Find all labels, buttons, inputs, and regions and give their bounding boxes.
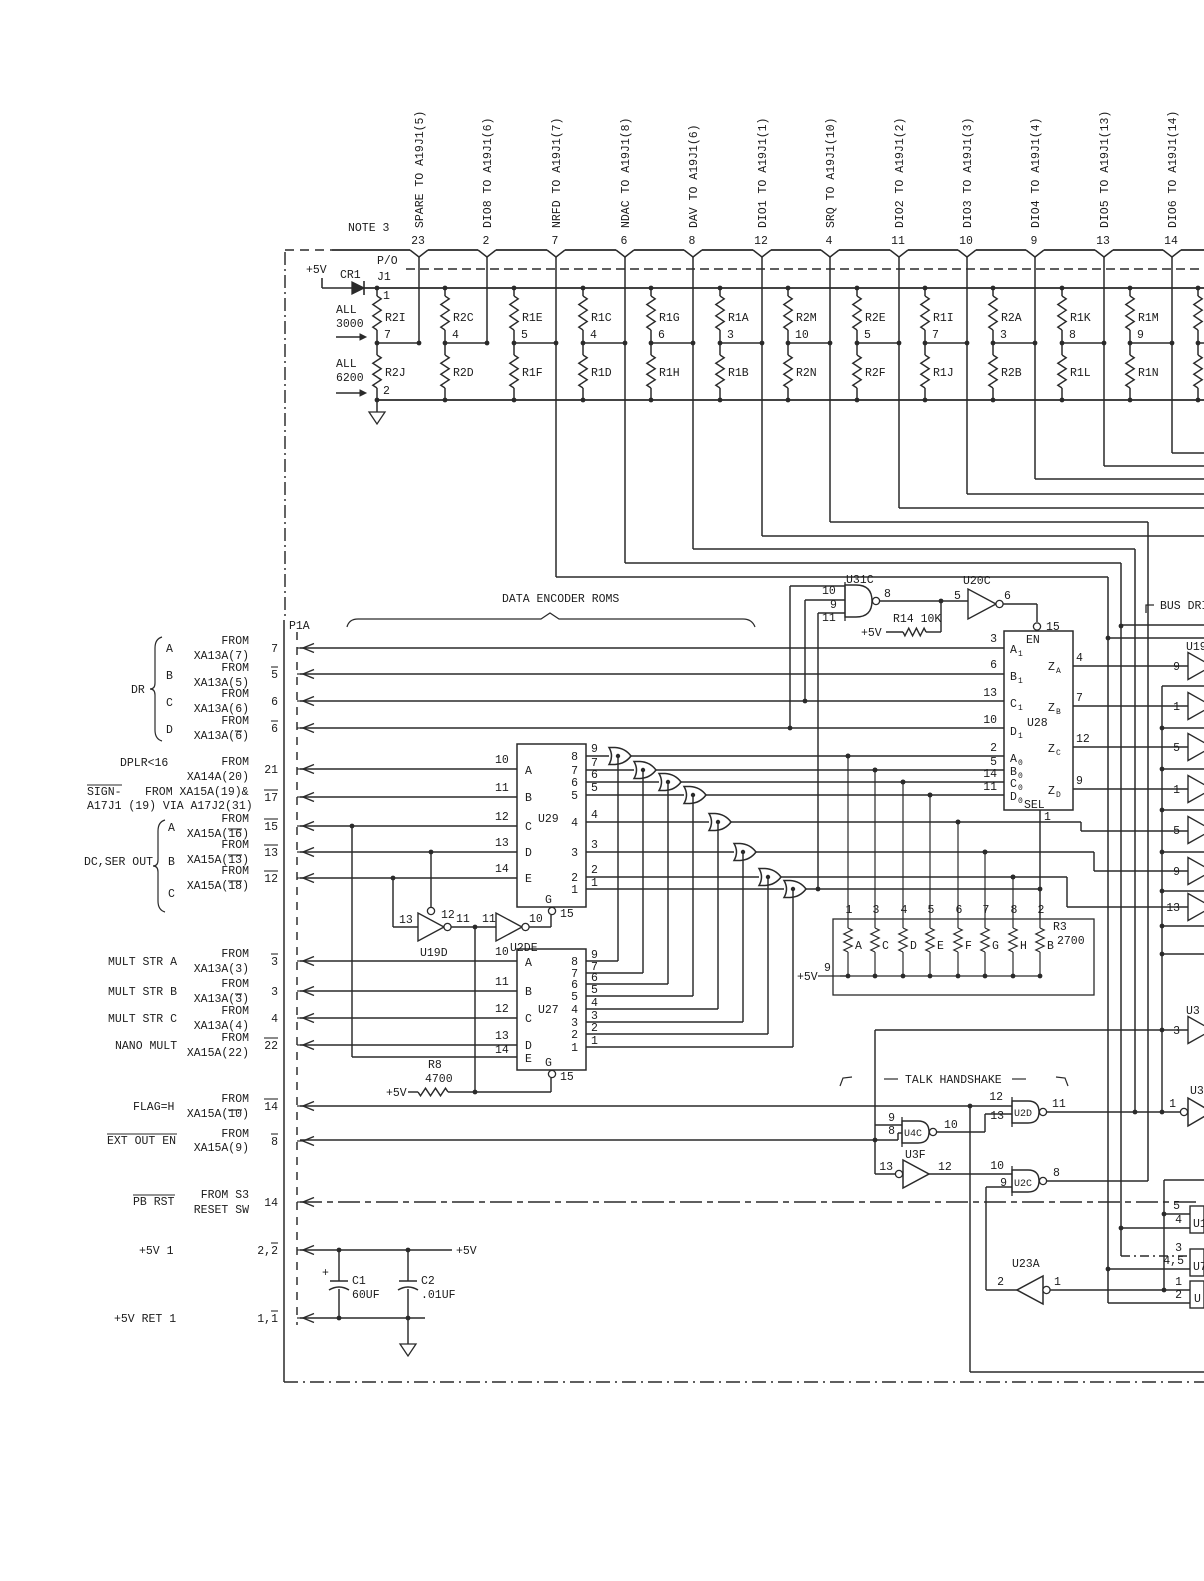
- svg-text:G: G: [545, 1057, 552, 1070]
- wire or3 output to U28 C0: [681, 780, 1004, 785]
- svg-text:SIGN-: SIGN-: [87, 786, 122, 799]
- wire or5 output to bus driver 5: [731, 820, 1188, 831]
- svg-text:C: C: [525, 1013, 532, 1026]
- or-gate 3: [659, 774, 681, 791]
- wire U29 out 1 row: [586, 877, 784, 890]
- svg-text:11: 11: [482, 913, 496, 926]
- svg-text:1: 1: [571, 1042, 578, 1055]
- svg-text:DPLR<16: DPLR<16: [120, 757, 168, 770]
- svg-text:5: 5: [571, 790, 578, 803]
- P1A pin 21 y769: [264, 764, 314, 777]
- svg-text:R2J: R2J: [385, 367, 406, 380]
- svg-text:9: 9: [888, 1112, 895, 1125]
- svg-text:5: 5: [928, 904, 935, 917]
- svg-text:15: 15: [264, 821, 278, 834]
- J1 pin 10 number: [959, 235, 973, 248]
- svg-text:5: 5: [591, 984, 598, 997]
- P1A pin 8 y1141: [271, 1134, 314, 1149]
- resistor R2C: [441, 286, 474, 343]
- svg-text:3: 3: [571, 847, 578, 860]
- svg-text:ALL: ALL: [336, 358, 357, 371]
- wire J1 column 9 vertical: [966, 257, 968, 494]
- svg-text:4: 4: [591, 997, 598, 1010]
- inverter U20C: [954, 575, 1011, 619]
- svg-text:1: 1: [1018, 650, 1023, 659]
- resistor R1L: [1058, 343, 1091, 402]
- wire J1 column 3 vertical: [555, 257, 557, 577]
- wire branch to right edge y638: [1108, 637, 1204, 639]
- U28 EN bubble pin 15: [1033, 621, 1060, 634]
- svg-text:11: 11: [983, 781, 997, 794]
- svg-text:Z: Z: [1048, 702, 1055, 715]
- svg-text:7: 7: [932, 329, 939, 342]
- resistor R1E: [510, 286, 543, 343]
- svg-text:FROM: FROM: [221, 1032, 249, 1045]
- svg-text:U2C: U2C: [1014, 1179, 1032, 1190]
- svg-text:14: 14: [1164, 235, 1178, 248]
- svg-text:B: B: [525, 986, 532, 999]
- svg-text:6: 6: [1004, 590, 1011, 603]
- svg-text:Z: Z: [1048, 743, 1055, 756]
- signal label NDAC column 4: [620, 118, 633, 228]
- svg-text:11: 11: [495, 782, 509, 795]
- IC box U8 right edge: [1190, 1281, 1204, 1308]
- svg-text:FLAG=H: FLAG=H: [133, 1101, 174, 1114]
- wire R3 pin 5 riser: [928, 793, 933, 919]
- svg-text:10: 10: [959, 235, 973, 248]
- svg-text:C: C: [168, 888, 175, 901]
- node mid pin 10 column 7: [786, 329, 833, 345]
- signal label DAV column 5: [688, 124, 701, 228]
- svg-text:EXT OUT EN: EXT OUT EN: [107, 1135, 176, 1148]
- signal label DIO4 column 10: [1030, 118, 1043, 228]
- svg-text:+5V: +5V: [861, 627, 882, 640]
- svg-text:FROM: FROM: [221, 1093, 249, 1106]
- svg-text:3: 3: [271, 956, 278, 969]
- svg-text:MULT STR A: MULT STR A: [108, 956, 177, 969]
- resistor R1A: [716, 286, 749, 343]
- ROM U29: [517, 744, 586, 907]
- svg-text:5: 5: [954, 590, 961, 603]
- svg-text:12: 12: [754, 235, 768, 248]
- wire U2D out to inverter U3: [1046, 1098, 1184, 1114]
- svg-text:6200: 6200: [336, 372, 364, 385]
- signal label DIO8 column 2: [482, 118, 495, 228]
- or-gate 4: [684, 787, 706, 804]
- wire branch to right edge y625: [1121, 624, 1204, 626]
- wire U29 out 5 row: [586, 782, 684, 795]
- svg-text:3: 3: [591, 839, 598, 852]
- svg-text:DATA ENCODER ROMS: DATA ENCODER ROMS: [502, 593, 619, 606]
- U27 out pin label row 996: [591, 984, 598, 997]
- svg-text:1: 1: [1018, 677, 1023, 686]
- wire U29 out 6 row: [586, 769, 659, 782]
- svg-text:2: 2: [1175, 1289, 1182, 1302]
- wire right lower feed vertical: [1162, 1180, 1204, 1292]
- signal label DIO1 column 6: [757, 118, 770, 228]
- resistor R2A: [989, 286, 1022, 343]
- signal label DIO3 column 9: [962, 118, 975, 228]
- data selector U28: [1004, 631, 1073, 812]
- svg-text:FROM: FROM: [221, 635, 249, 648]
- resistor R1C: [579, 286, 612, 343]
- svg-text:12: 12: [938, 1161, 952, 1174]
- svg-text:D: D: [1010, 726, 1017, 739]
- svg-text:7: 7: [384, 329, 391, 342]
- svg-text:C: C: [1010, 698, 1017, 711]
- svg-text:E: E: [525, 1053, 532, 1066]
- wire or8 output row to R3 SEL: [806, 887, 1042, 892]
- J1 pin 7 number: [552, 235, 559, 248]
- svg-text:6: 6: [591, 769, 598, 782]
- node mid pin 5 column 3: [512, 329, 559, 345]
- wire P1A 12 to U29 E: [300, 863, 517, 880]
- svg-text:D: D: [1010, 791, 1017, 804]
- or-gate 2: [634, 762, 656, 779]
- wire U29 out 2 row: [586, 864, 759, 877]
- svg-text:13: 13: [879, 1161, 893, 1174]
- svg-text:C1: C1: [352, 1275, 366, 1288]
- wire R3 pin 6 riser: [956, 820, 961, 919]
- svg-text:.01UF: .01UF: [421, 1289, 456, 1302]
- label FROM XA15A(16): [187, 813, 249, 841]
- U29 G enable bubble pin 15: [548, 907, 574, 921]
- svg-text:C: C: [1010, 778, 1017, 791]
- svg-text:6: 6: [271, 696, 278, 709]
- svg-text:+5V: +5V: [456, 1245, 477, 1258]
- svg-text:U4C: U4C: [904, 1129, 922, 1140]
- wire J1 column 8 vertical: [898, 257, 900, 508]
- inverter U2DE: [496, 913, 543, 955]
- svg-text:EN: EN: [1026, 634, 1040, 647]
- svg-text:9: 9: [830, 599, 837, 612]
- wire FLAG riser down and bottom run: [970, 1106, 1204, 1372]
- svg-text:4: 4: [826, 235, 833, 248]
- svg-text:U7: U7: [1193, 1261, 1204, 1274]
- svg-text:U3: U3: [1190, 1085, 1204, 1098]
- svg-text:XA14A(20): XA14A(20): [187, 771, 249, 784]
- label DPLR<16 FROM XA14A(20): [120, 756, 249, 784]
- P1A pin 12 y878: [264, 871, 314, 886]
- svg-text:4: 4: [901, 904, 908, 917]
- svg-text:3: 3: [727, 329, 734, 342]
- svg-text:U28: U28: [1027, 717, 1048, 730]
- svg-text:R1I: R1I: [933, 312, 954, 325]
- svg-text:13: 13: [264, 847, 278, 860]
- svg-text:6: 6: [658, 329, 665, 342]
- svg-text:11: 11: [891, 235, 905, 248]
- svg-text:0: 0: [1018, 759, 1023, 768]
- svg-text:R14 10K: R14 10K: [893, 613, 941, 626]
- inverter U19D: [393, 852, 455, 960]
- P1A pin 3 y961: [271, 954, 314, 969]
- J1 pin 6 number: [621, 235, 628, 248]
- wire P1A 6 to U28 C1: [300, 699, 1004, 704]
- P1A pin 14 y1202: [264, 1197, 314, 1210]
- svg-text:J1: J1: [377, 271, 391, 284]
- U27 out pin label row 973: [591, 961, 598, 974]
- resistor R2B: [989, 343, 1022, 402]
- wire U27 out 5 to or-gate 4: [586, 793, 695, 996]
- svg-text:A: A: [1010, 753, 1017, 766]
- svg-text:23: 23: [411, 235, 425, 248]
- svg-text:NRFD TO A19J1(7): NRFD TO A19J1(7): [551, 118, 564, 228]
- svg-text:R1J: R1J: [933, 367, 954, 380]
- svg-text:A: A: [1010, 644, 1017, 657]
- bus J1 pin 1 row: [364, 288, 1204, 303]
- wire U29 out 9 row: [586, 743, 609, 756]
- svg-text:CR1: CR1: [340, 269, 361, 282]
- P1A pin 22 y1045: [264, 1038, 314, 1053]
- wire P1A 3 to U27 B: [300, 976, 517, 991]
- svg-text:D: D: [910, 940, 917, 953]
- P1A pin 5 y674: [271, 667, 314, 682]
- diode CR1: [340, 269, 364, 295]
- svg-text:21: 21: [264, 764, 278, 777]
- wire riser DC SER OUT A to U27 E: [352, 826, 517, 1057]
- svg-text:13: 13: [983, 687, 997, 700]
- resistor R8 4700 pullup: [386, 1059, 551, 1100]
- svg-text:FROM XA15A(19)&: FROM XA15A(19)&: [145, 786, 249, 799]
- svg-text:FROM: FROM: [221, 662, 249, 675]
- DATA ENCODER ROMS brace: [347, 613, 755, 627]
- inverter U23A facing left: [997, 1258, 1061, 1304]
- svg-text:6: 6: [990, 659, 997, 672]
- svg-text:MULT STR C: MULT STR C: [108, 1013, 177, 1026]
- svg-text:R2E: R2E: [865, 312, 886, 325]
- svg-text:MULT STR B: MULT STR B: [108, 986, 177, 999]
- svg-text:9: 9: [1000, 1177, 1007, 1190]
- wire U31C out 8 to U20C: [880, 588, 968, 603]
- svg-text:10: 10: [495, 946, 509, 959]
- svg-text:9: 9: [1137, 329, 1144, 342]
- P1A pin 2,2 y1250: [257, 1243, 314, 1258]
- svg-text:DIO8 TO A19J1(6): DIO8 TO A19J1(6): [482, 118, 495, 228]
- svg-text:RESET SW: RESET SW: [194, 1204, 249, 1217]
- wire R8 node riser to U19D-U2DE net: [474, 927, 476, 1092]
- svg-text:R3: R3: [1053, 921, 1067, 934]
- svg-text:G: G: [992, 940, 999, 953]
- svg-text:A: A: [166, 643, 173, 656]
- wire U28 SEL to R3: [1040, 810, 1051, 919]
- svg-text:15: 15: [1046, 621, 1060, 634]
- svg-text:1: 1: [1169, 1098, 1176, 1111]
- svg-text:12: 12: [495, 1003, 509, 1016]
- svg-text:6: 6: [621, 235, 628, 248]
- wire U28 ZA to bus driver 1: [1073, 652, 1188, 666]
- svg-text:13: 13: [1096, 235, 1110, 248]
- wire J1 column 5 vertical: [692, 257, 694, 549]
- svg-text:1: 1: [383, 290, 390, 303]
- node mid pin 5 column 8: [855, 329, 902, 345]
- wire J1 column 2 vertical: [486, 257, 488, 343]
- svg-text:FROM: FROM: [221, 948, 249, 961]
- svg-text:D: D: [525, 847, 532, 860]
- wire or2 output to U28 B0: [656, 768, 1004, 773]
- svg-text:U2D: U2D: [1014, 1109, 1032, 1120]
- svg-text:13: 13: [399, 914, 413, 927]
- wire U19D out to U2DE in: [451, 913, 496, 929]
- wire J1 column 4 vertical: [624, 257, 626, 563]
- svg-text:10: 10: [529, 913, 543, 926]
- svg-text:6: 6: [956, 904, 963, 917]
- svg-text:DR: DR: [131, 684, 145, 697]
- wire NRFD column 3 down right bus: [556, 577, 1110, 1303]
- svg-text:2: 2: [483, 235, 490, 248]
- svg-text:1: 1: [571, 884, 578, 897]
- svg-text:10: 10: [944, 1119, 958, 1132]
- wire DIO2 column 8 to right edge: [899, 507, 1204, 509]
- resistor network R3 2700: [797, 904, 1094, 995]
- label FLAG=H FROM XA15A(10): [133, 1093, 249, 1121]
- svg-text:12: 12: [495, 811, 509, 824]
- wire to buffer 3 from U3F net: [875, 1030, 1188, 1174]
- ground below C2: [400, 1318, 416, 1356]
- svg-text:1: 1: [1018, 704, 1023, 713]
- svg-text:R8: R8: [428, 1059, 442, 1072]
- TALK HANDSHAKE header: [840, 1074, 1068, 1087]
- svg-text:R2F: R2F: [865, 367, 886, 380]
- svg-text:1: 1: [1018, 732, 1023, 741]
- svg-text:2,2: 2,2: [257, 1245, 278, 1258]
- U2C input pin labels: [990, 1160, 1007, 1190]
- svg-text:U27: U27: [538, 1004, 559, 1017]
- svg-text:XA13A(6): XA13A(6): [194, 730, 249, 743]
- svg-text:7: 7: [983, 904, 990, 917]
- resistor R2E: [853, 286, 886, 343]
- wire P1A 17 to U29 B: [300, 782, 517, 797]
- svg-text:A: A: [525, 765, 532, 778]
- svg-text:8: 8: [1053, 1167, 1060, 1180]
- signal label NRFD column 3: [551, 118, 564, 228]
- sheet border left dash-dot upper: [284, 252, 286, 620]
- nand U31C: [845, 585, 880, 617]
- svg-text:R1F: R1F: [522, 367, 543, 380]
- svg-text:D: D: [166, 724, 173, 737]
- svg-text:R2B: R2B: [1001, 367, 1022, 380]
- svg-text:R2N: R2N: [796, 367, 817, 380]
- svg-text:FROM S3: FROM S3: [201, 1189, 249, 1202]
- svg-text:SPARE TO A19J1(5): SPARE TO A19J1(5): [414, 111, 427, 228]
- svg-text:U19D: U19D: [420, 947, 448, 960]
- label MULT STR C FROM XA13A(4): [108, 1005, 249, 1033]
- svg-text:4: 4: [452, 329, 459, 342]
- label +5V RET 1: [114, 1313, 176, 1326]
- U27 out pin label row 1034: [591, 1022, 598, 1035]
- svg-text:60UF: 60UF: [352, 1289, 380, 1302]
- resistor R1J: [921, 343, 954, 402]
- wire P1A 5 to U28 B1: [300, 673, 1004, 675]
- svg-text:4: 4: [591, 809, 598, 822]
- resistor R1I: [921, 286, 954, 343]
- J1 pin 9 number: [1031, 235, 1038, 248]
- signal label DIO6 column 12: [1167, 111, 1180, 228]
- svg-text:DIO1 TO A19J1(1): DIO1 TO A19J1(1): [757, 118, 770, 228]
- svg-text:2: 2: [997, 1276, 1004, 1289]
- P1A pin 17 y797: [264, 790, 314, 805]
- svg-text:FROM: FROM: [221, 688, 249, 701]
- svg-text:D: D: [1056, 791, 1061, 800]
- wire P1A 15 to U29 C: [300, 811, 517, 828]
- resistor R1K: [1058, 286, 1091, 343]
- svg-text:11: 11: [456, 913, 470, 926]
- node mid pin 8 column 11: [1060, 329, 1107, 345]
- svg-text:2: 2: [591, 864, 598, 877]
- label +5V 1: [139, 1245, 174, 1258]
- svg-text:SRQ TO A19J1(10): SRQ TO A19J1(10): [825, 118, 838, 228]
- svg-text:1: 1: [846, 904, 853, 917]
- svg-text:2: 2: [990, 742, 997, 755]
- resistor R2D: [441, 343, 474, 402]
- svg-text:C2: C2: [421, 1275, 435, 1288]
- connector P1A dashed pin line: [296, 632, 298, 1325]
- wire box U14 pin 5: [1164, 1200, 1190, 1214]
- svg-text:0: 0: [1018, 772, 1023, 781]
- svg-text:R2M: R2M: [796, 312, 817, 325]
- svg-text:11: 11: [1052, 1098, 1066, 1111]
- wire or4 output to U28 D0: [706, 793, 1004, 798]
- label SIGN- FROM XA15A(19): [87, 785, 253, 813]
- wire SRQ column 7 down right bus: [830, 522, 1148, 1181]
- svg-text:12: 12: [264, 873, 278, 886]
- wire J1 column 11 vertical: [1103, 257, 1105, 466]
- svg-text:6: 6: [271, 723, 278, 736]
- P/O J1 label: [377, 255, 398, 284]
- svg-text:U31C: U31C: [846, 574, 874, 587]
- capacitor C1 60UF: [322, 1250, 380, 1318]
- svg-text:1: 1: [591, 1035, 598, 1048]
- svg-text:12: 12: [1076, 733, 1090, 746]
- wire U27 out 8 to or-gate 1: [586, 754, 620, 961]
- P1A pin 4 y1018: [271, 1013, 314, 1026]
- or-gate 6: [734, 844, 756, 861]
- svg-text:3: 3: [1175, 1242, 1182, 1255]
- signal label SRQ column 7: [825, 118, 838, 228]
- svg-text:R1K: R1K: [1070, 312, 1091, 325]
- svg-text:10: 10: [990, 1160, 1004, 1173]
- wire or6 output to bus driver 6: [756, 850, 1188, 871]
- svg-text:FROM: FROM: [221, 813, 249, 826]
- label FROM XA13A(5): [194, 662, 249, 690]
- note 3 label: [348, 222, 390, 235]
- wire J1 column 6 vertical: [761, 257, 763, 536]
- svg-text:5: 5: [521, 329, 528, 342]
- bus driver buffer 5 at y747: [1173, 734, 1204, 761]
- wire J1 column 7 vertical: [829, 257, 831, 522]
- U4C input pin labels: [888, 1112, 895, 1138]
- P1A label: [289, 620, 310, 633]
- wire U27 out 3 to or-gate 6: [586, 850, 745, 1022]
- svg-text:B: B: [166, 670, 173, 683]
- svg-text:5: 5: [864, 329, 871, 342]
- DR group brace and labels: [131, 637, 173, 741]
- BUS DRIVERS header: [1146, 600, 1204, 613]
- svg-text:8: 8: [1011, 904, 1018, 917]
- svg-text:8: 8: [888, 1125, 895, 1138]
- svg-text:U23A: U23A: [1012, 1258, 1040, 1271]
- svg-text:9: 9: [1173, 866, 1180, 879]
- svg-text:2: 2: [383, 385, 390, 398]
- svg-text:3: 3: [990, 633, 997, 646]
- svg-text:1,1: 1,1: [257, 1313, 278, 1326]
- svg-text:14: 14: [983, 768, 997, 781]
- wire DIO1 column 6 to right edge: [762, 535, 1204, 537]
- label MULT STR A FROM XA13A(3): [108, 948, 249, 976]
- svg-text:1: 1: [591, 877, 598, 890]
- svg-text:8: 8: [1069, 329, 1076, 342]
- wire R3 pin 8 riser: [1011, 875, 1016, 919]
- DATA ENCODER ROMS header text: [502, 593, 619, 606]
